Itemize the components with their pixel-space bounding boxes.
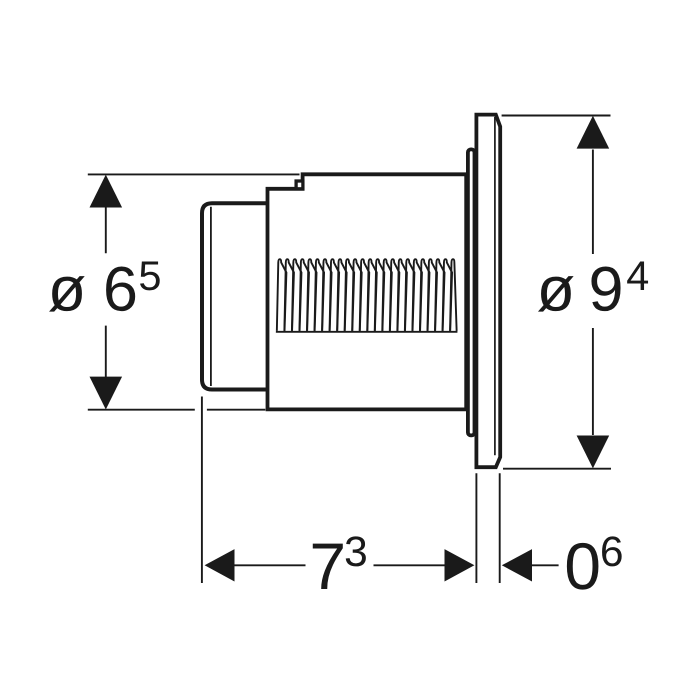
arrowhead down (ø 6.5 bottom) — [90, 377, 123, 410]
arrowhead up (ø 9.4 top) — [577, 116, 610, 149]
arrowhead left-pointing (0.6) — [502, 549, 532, 581]
actuator body (main housing) — [268, 174, 467, 409]
label ø (right diameter symbol) — [538, 276, 574, 312]
label superscript 4 — [627, 261, 648, 290]
label superscript 6 — [602, 536, 622, 566]
arrowhead left (7.3) — [205, 549, 235, 581]
extension line top-right (flange top, ø 9.4) — [502, 115, 611, 117]
flange chamfer crease line — [494, 117, 496, 455]
push button (side view, left cylinder) — [202, 203, 268, 389]
extension line bottom-left (body bottom, ø 6.5) — [88, 409, 265, 411]
cover plate flange (wall plate) — [476, 115, 500, 468]
extension line bottom (flange right face, 0.6) — [499, 473, 501, 583]
arrowhead right (7.3) — [445, 549, 475, 581]
extension line top-left (body top, ø 6.5) — [88, 173, 300, 175]
extension line bottom (flange left face, 7.3 / 0.6) — [475, 473, 477, 583]
extension line bottom (button left edge, 7.3) — [201, 397, 203, 584]
dimension line ø 9.4 (right vertical) — [592, 150, 594, 436]
label superscript 3 — [346, 536, 366, 566]
bellows / corrugated sleeve section — [276, 259, 459, 332]
dimension line ø 6.5 (left vertical) — [105, 207, 107, 378]
extension line bottom-right (flange bottom, ø 9.4) — [503, 468, 611, 470]
retaining clip (small square at body top step) — [296, 181, 303, 189]
label superscript 5 — [140, 261, 160, 290]
arrowhead up (ø 6.5 top) — [90, 175, 123, 208]
label 7 — [313, 544, 343, 589]
button face crease line — [210, 207, 212, 386]
label digit 9 — [591, 267, 620, 312]
label 0 — [567, 543, 599, 590]
dimension line 0.6 (bottom right, arrow outside) — [532, 564, 559, 566]
label digit 6 — [106, 267, 135, 312]
label ø (left diameter symbol) — [49, 276, 85, 312]
mounting ring (thin collar behind flange) — [468, 149, 475, 435]
dimension line 7.3 (bottom horizontal) — [234, 564, 445, 566]
arrowhead down (ø 9.4 bottom) — [577, 436, 610, 469]
